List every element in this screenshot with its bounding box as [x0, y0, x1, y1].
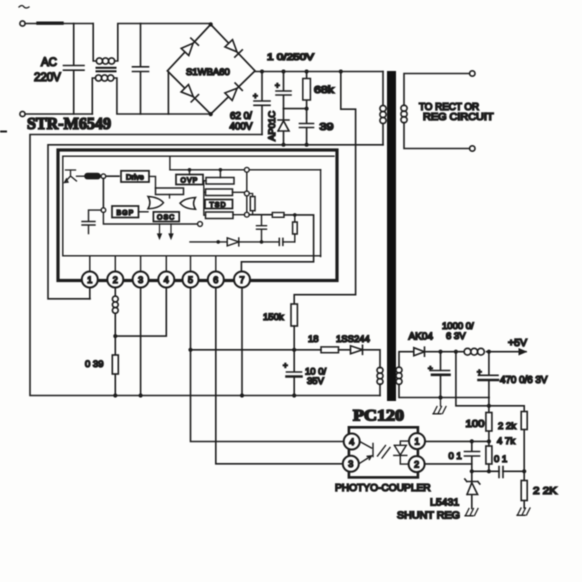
pin 7: [234, 272, 250, 288]
svg-text:400V: 400V: [230, 122, 253, 133]
scan mark top-left: [19, 6, 29, 9]
svg-text:4 7k: 4 7k: [497, 436, 515, 447]
svg-text:AC: AC: [41, 57, 57, 69]
transistor Q internal: [65, 170, 77, 183]
resistor Rd: [206, 212, 234, 219]
resistor 150k: [291, 304, 297, 326]
capacitor CX1: [64, 24, 85, 115]
terminal out bottom: [470, 146, 475, 151]
svg-text:2 2k: 2 2k: [498, 421, 516, 432]
resistor Rv1 vertical: [250, 197, 255, 211]
pin 4: [158, 272, 174, 288]
wire box A outer boundary: [30, 135, 380, 396]
diode 1SS244: [351, 345, 363, 354]
svg-text:4: 4: [164, 275, 169, 285]
svg-text:1 0/250V: 1 0/250V: [267, 52, 315, 63]
svg-text:39: 39: [320, 122, 335, 133]
svg-text:18: 18: [308, 334, 319, 345]
wire Drive out: [149, 176, 156, 188]
svg-text:1: 1: [87, 275, 92, 285]
wire pin4 jog to pin2 line: [115, 288, 166, 337]
ground G1: [433, 398, 446, 414]
svg-text:AP01C: AP01C: [267, 111, 278, 141]
IC inner box: [63, 156, 334, 256]
svg-text:35V: 35V: [307, 376, 325, 387]
gate G2: [180, 198, 196, 210]
svg-text:TSD: TSD: [210, 202, 227, 209]
block OVP: [176, 175, 203, 185]
svg-text:PC120: PC120: [353, 408, 404, 425]
svg-text:+: +: [477, 368, 482, 377]
svg-text:5: 5: [188, 275, 193, 285]
svg-text:+: +: [253, 92, 258, 101]
diode internal: [227, 238, 239, 246]
terminal AC top: [20, 21, 25, 26]
transformer feedback winding: [379, 384, 381, 396]
wire left vertex drop: [167, 72, 169, 114]
terminal AC bottom: [20, 111, 25, 116]
svg-text:REG CIRCUIT: REG CIRCUIT: [423, 112, 494, 123]
svg-text:Drive: Drive: [126, 172, 144, 181]
svg-text:2: 2: [414, 459, 419, 469]
svg-text:2: 2: [113, 275, 118, 285]
svg-text:0 1: 0 1: [494, 454, 507, 465]
resistor gate pill: [85, 174, 100, 179]
capacitor Cq internal: [257, 215, 267, 242]
pin 5: [183, 272, 199, 288]
wire divider feed: [456, 352, 524, 406]
capacitor 470 0/6 3V: [479, 352, 499, 398]
node n5 open: [198, 222, 203, 227]
ground G3: [517, 508, 530, 515]
svg-text:AK04: AK04: [409, 332, 434, 343]
wire low node rail: [472, 470, 524, 472]
zener AP01C: [278, 109, 289, 145]
svg-text:S1WBA60: S1WBA60: [186, 67, 230, 78]
svg-text:1: 1: [415, 436, 420, 446]
wire pin7 drop: [241, 288, 243, 396]
svg-text:STR-M6549: STR-M6549: [27, 114, 111, 133]
node dots DC rail: [260, 70, 264, 74]
resistor 2 2K lower: [523, 471, 525, 508]
svg-text:4: 4: [349, 437, 354, 447]
wire pin3 drop: [140, 288, 142, 396]
arrows below OSC: [158, 224, 173, 239]
wire node108: [284, 108, 307, 110]
choke L1 core: [96, 67, 117, 69]
pin 6: [208, 272, 224, 288]
svg-text:PHOTYO-COUPLER: PHOTYO-COUPLER: [335, 483, 431, 494]
svg-text:BGP: BGP: [117, 210, 135, 217]
resistor Ra: [206, 178, 234, 185]
svg-text:6 3V: 6 3V: [446, 331, 466, 342]
node n1: [100, 175, 119, 177]
ground G2: [465, 509, 478, 516]
choke L1 bottom winding: [92, 78, 210, 114]
node bridge bottom: [209, 112, 213, 116]
node n4: [244, 212, 249, 217]
svg-text:0 1: 0 1: [449, 451, 462, 462]
block OSC: [153, 212, 179, 222]
scan mark left edge: [0, 131, 6, 133]
PC pin 3: [343, 456, 359, 472]
wire DC+ rail: [255, 71, 383, 73]
wire left stack tie: [204, 181, 206, 216]
resistor 2 2k: [523, 406, 525, 472]
wire box B supply loop: [48, 72, 383, 305]
node n3: [244, 191, 249, 196]
light arrows: [378, 446, 391, 459]
svg-text:SHUNT REG: SHUNT REG: [397, 511, 460, 522]
resistor Rv2 vertical: [294, 215, 296, 242]
capacitor C62 62 0/400V: [254, 72, 270, 135]
block TSD: [205, 200, 233, 209]
resistor 100: [488, 406, 490, 443]
svg-text:62 0/: 62 0/: [230, 111, 252, 122]
svg-text:6: 6: [213, 275, 218, 285]
svg-text:+: +: [428, 364, 433, 373]
capacitor C1u: [276, 72, 291, 109]
svg-text:3: 3: [348, 459, 353, 469]
PC pin 4: [344, 434, 360, 450]
resistor R big: [156, 188, 184, 195]
svg-text:2 2K: 2 2K: [533, 486, 557, 497]
svg-text:150k: 150k: [263, 312, 284, 323]
wire top internal rail: [170, 157, 321, 170]
coil under pin2: [114, 288, 116, 337]
transformer primary winding: [382, 72, 384, 145]
transformer core: [387, 71, 396, 401]
pin stubs: [90, 257, 216, 272]
svg-text:7: 7: [240, 275, 245, 285]
capacitor 1000 0/6 3V: [432, 352, 450, 398]
svg-text:+: +: [275, 81, 280, 90]
shunt regulator L5431: [465, 471, 480, 508]
wire inner right vertical: [320, 170, 322, 257]
resistor 18: [321, 347, 339, 353]
pin 2: [107, 272, 123, 288]
svg-text:OVP: OVP: [181, 178, 199, 185]
svg-text:L5431: L5431: [430, 497, 459, 509]
svg-text:0 39: 0 39: [85, 359, 104, 370]
node circle right rail: [244, 167, 249, 172]
svg-text:OSC: OSC: [157, 215, 175, 222]
capacitor internal left: [82, 210, 101, 233]
block Drive U1a: [121, 171, 149, 182]
wire top AC rail: [25, 23, 93, 25]
resistor 68k: [306, 72, 308, 109]
terminal out top: [470, 71, 475, 76]
wire n1 down: [102, 179, 104, 208]
svg-text:1SS244: 1SS244: [336, 334, 370, 345]
svg-text:+5V: +5V: [508, 337, 527, 349]
capacitor series internal: [279, 238, 283, 245]
diode bridge bottom-right: [225, 83, 242, 100]
node n2: [101, 208, 106, 213]
capacitor 10 0/35V: [287, 350, 302, 396]
PC pin 2: [409, 456, 425, 472]
wire n4 right with resistor Rh1: [249, 214, 272, 216]
transformer secondary top winding: [404, 74, 470, 149]
wire pin1 drop: [89, 288, 91, 299]
resistor 4 7k: [486, 446, 492, 464]
wire +5V rail: [425, 351, 527, 353]
node bridge top: [209, 22, 213, 26]
LED PC right: [394, 441, 409, 464]
wire internal low rail: [190, 241, 295, 243]
wire pin5 drop to PC pin4: [191, 288, 344, 442]
diode bridge top-right: [225, 40, 242, 57]
pin 3: [133, 272, 149, 288]
choke L1 top winding: [93, 24, 211, 62]
capacitor 39: [300, 109, 314, 145]
wire pin6 drop to PC pin3: [216, 288, 343, 464]
gate G1: [148, 197, 164, 209]
phototransistor PC left: [359, 442, 373, 464]
svg-text:+: +: [283, 361, 288, 370]
svg-text:220V: 220V: [34, 72, 61, 84]
PC pin 1: [409, 433, 425, 449]
svg-text:470 0/6 3V: 470 0/6 3V: [500, 375, 548, 386]
wire feedback line: [191, 350, 381, 368]
photo-coupler PC120 box: [349, 427, 418, 477]
diode bridge bottom-left: [181, 85, 198, 102]
capacitor 0 1 left: [465, 441, 480, 471]
wire PC pin1 to divider: [425, 440, 489, 442]
transformer secondary bottom winding: [399, 352, 489, 398]
svg-text:68k: 68k: [314, 85, 335, 96]
bridge rectifier S1WBA60 body: [167, 24, 255, 114]
wire PC pin2: [425, 463, 472, 465]
pin 1: [82, 272, 98, 288]
diode bridge top-left: [181, 38, 198, 55]
diode AK04: [414, 347, 425, 356]
svg-text:3: 3: [138, 275, 143, 285]
IC package STR-M6549 box: [58, 150, 337, 281]
resistor Rb: [206, 189, 233, 196]
capacitor 0 1 series: [499, 467, 503, 478]
resistor 0 39: [114, 336, 116, 395]
wire bottom AC rail: [25, 113, 92, 115]
block BGP: [112, 206, 139, 218]
svg-text:100: 100: [466, 419, 485, 430]
capacitor CX2: [133, 24, 149, 115]
